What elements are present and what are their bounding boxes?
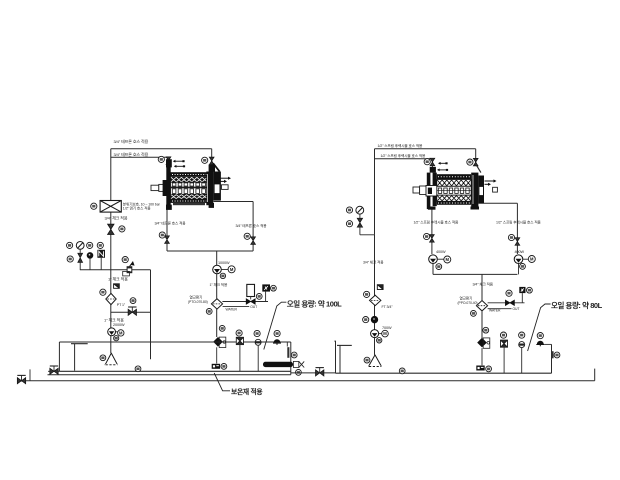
wire supply line1 left system: [111, 148, 212, 150]
wire main riser lower left system: [110, 270, 112, 353]
tank2 baffle: [337, 345, 352, 373]
svg-text:PT 1": PT 1": [117, 303, 126, 307]
wire center drop to tank2: [481, 311, 483, 338]
wire accumulator branch right: [488, 302, 525, 304]
motor M 400W-1: [444, 256, 451, 263]
temperature switch body: [97, 250, 105, 258]
air breather tank2: [536, 341, 544, 347]
wire water out left: [223, 306, 250, 308]
control tag bubble right: [527, 287, 533, 293]
svg-text:3/4" 체크 적용: 3/4" 체크 적용: [363, 259, 384, 264]
tank1 bottom tag bubble: [135, 366, 141, 372]
pump tag bubble 1000W: [220, 273, 225, 278]
svg-text:400W: 400W: [515, 250, 525, 254]
tank1 baffle: [71, 344, 88, 371]
machine M1 center section: [171, 182, 208, 194]
tag bubble purge unit: [91, 203, 97, 209]
strainer tag bubble right: [364, 357, 370, 363]
svg-text:700W: 700W: [382, 326, 392, 330]
valve V4 machine2 inlet right: [473, 158, 478, 166]
heater control box right: [519, 287, 525, 293]
gauge isolation valve right: [357, 218, 362, 227]
immersion heater tank1: [263, 361, 304, 367]
wire machine right drain horizontal: [214, 201, 254, 203]
wire main riser upper left system: [110, 149, 112, 201]
svg-text:(PTO-070-80): (PTO-070-80): [188, 300, 208, 304]
wire drop to machine2 top left: [431, 159, 433, 173]
wire control box stem right: [521, 293, 523, 303]
pump tag bubble 400W-1: [436, 264, 442, 270]
wire PS stem down: [89, 258, 91, 270]
gear pump right on tank: [478, 338, 490, 348]
drain valve machine right: [251, 237, 256, 245]
svg-text:오일 용량: 약 80L: 오일 용량: 약 80L: [551, 300, 603, 310]
machine M2 dryer roller right: [413, 167, 439, 209]
gauge isolation valve: [78, 253, 83, 262]
drain valve machine2 left: [430, 235, 435, 243]
valve main riser left: [108, 224, 115, 234]
solenoid valve tank1: [236, 337, 243, 344]
valve V2 machine inlet right: [209, 157, 214, 165]
svg-text:3/4" 테프론 호스 적용: 3/4" 테프론 호스 적용: [114, 151, 149, 157]
wire solenoid stem tank1: [239, 345, 241, 372]
drain valve machine2 right: [515, 238, 520, 246]
level gauge tank1: [287, 347, 289, 358]
heater tag bubble tank1: [296, 370, 302, 376]
wire discharge header right system: [433, 273, 517, 275]
wire bypass return line into tank: [150, 270, 152, 360]
heater control box left: [262, 284, 270, 291]
tag bubble PS: [87, 242, 93, 248]
wire level switch stem tank1: [257, 345, 259, 371]
gear pump tag bubble right: [483, 327, 489, 333]
svg-text:3/4" 체크 적용: 3/4" 체크 적용: [105, 215, 128, 221]
level gauge tank2: [552, 351, 554, 358]
wire accumulator stem: [250, 297, 252, 300]
machine M1 dryer roller left: [151, 159, 172, 205]
svg-text:보온재 적용: 보온재 적용: [231, 387, 263, 396]
check valve dark right riser: [371, 316, 378, 323]
wire tank1 to tank2 link: [291, 372, 336, 374]
leader oil capacity 80L: [528, 304, 551, 351]
machine M1 bottom band: [171, 199, 208, 205]
leader insulation label: [214, 373, 230, 391]
level gauge tag bubble tank2: [554, 352, 560, 358]
wire water out right: [488, 308, 512, 310]
wire cluster header right: [360, 234, 375, 236]
wire drop to machine top right: [211, 149, 213, 173]
accumulator valve left: [246, 299, 255, 304]
wire machine right drain drop: [252, 202, 254, 252]
tank1 drain valve: [50, 366, 58, 374]
valve tag bubble V3: [424, 159, 430, 165]
HX tag bubble left: [206, 309, 212, 315]
valve V1 machine inlet left: [166, 157, 171, 165]
wire gauge stem right: [359, 214, 361, 218]
vent arrow machine2 top2: [437, 169, 448, 172]
bypass valve tag bubble: [130, 298, 136, 304]
wire level switch stem tank2: [521, 348, 523, 374]
tank2 left corner: [334, 341, 335, 373]
level gauge tag bubble tank1: [291, 352, 297, 358]
drain valve tag bubble m2 right: [508, 234, 514, 240]
svg-text:WATER: WATER: [489, 309, 501, 313]
hatch band lower machine M2: [437, 196, 470, 201]
wire tank1 drain stub: [48, 370, 59, 372]
machine M1 body: [171, 172, 208, 177]
machine M1 shaft end right: [222, 185, 229, 190]
tag bubble valve cluster: [67, 256, 73, 262]
wire gauge stem: [79, 249, 81, 253]
svg-text:1/2" 스프링 후렉시블 호스 적용: 1/2" 스프링 후렉시블 호스 적용: [496, 219, 542, 224]
machine M2 right end: [428, 173, 484, 210]
motor M 400W-2: [528, 256, 535, 263]
filter tag bubble left: [100, 289, 106, 295]
svg-text:M: M: [383, 331, 387, 336]
wire gear pump to drain plug: [216, 347, 218, 363]
solenoid tag bubble tank1: [236, 330, 242, 336]
acc valve tag bubble right: [506, 290, 512, 296]
breather tag bubble tank2: [537, 333, 543, 339]
machine M2 bottom band: [437, 201, 471, 205]
gauge tag bubble PI: [67, 242, 73, 248]
wire accumulator branch left: [222, 301, 268, 303]
svg-text:1/2" 스프링 후렉시블 호스 적용: 1/2" 스프링 후렉시블 호스 적용: [381, 153, 427, 158]
level switch tag bubble tank1: [254, 330, 260, 336]
drain valve machine left: [165, 236, 170, 244]
accumulator tag bubble: [256, 294, 262, 300]
svg-text:M: M: [119, 330, 123, 335]
svg-text:3/4" 테프론 호스 적용: 3/4" 테프론 호스 적용: [236, 223, 268, 228]
wire bypass bottom branch: [111, 311, 151, 313]
wire control box stem left: [265, 292, 267, 302]
svg-text:M: M: [446, 257, 450, 262]
wire machine2 right drain horizontal: [478, 202, 517, 204]
drain valve tag bubble right: [244, 233, 250, 239]
hatch band lower machine M1: [171, 194, 208, 199]
drain plug right tank: [476, 366, 484, 371]
motor M 2000W: [118, 330, 124, 336]
wire machine left drain drop: [166, 206, 168, 252]
svg-text:1" 체크 적용: 1" 체크 적용: [104, 317, 124, 323]
HX tag bubble right: [471, 311, 477, 317]
drain valve tag bubble left: [159, 232, 165, 238]
flow arrow machine M1 right1: [220, 177, 232, 180]
wire tank1 left wall: [58, 342, 60, 371]
wire supply line2 right system: [375, 158, 433, 160]
wire main riser mid left system: [110, 212, 112, 270]
pump 2000W left: [108, 328, 116, 336]
drain plug tag bubble: [221, 364, 227, 370]
suction strainer left tank: [105, 353, 117, 365]
wire drain header left system: [167, 250, 253, 252]
wire tank2 bottom: [336, 372, 552, 374]
wire return drop upper: [216, 251, 218, 265]
svg-text:3/4" 테프론 호스 적용: 3/4" 테프론 호스 적용: [155, 221, 187, 226]
suction strainer right tank: [369, 355, 382, 367]
bypass globe valve: [128, 307, 136, 315]
tag bubble right riser: [363, 317, 369, 323]
drain plug left tank: [212, 364, 220, 369]
wire pump discharge left m2: [432, 264, 434, 275]
vent arrow machine left top1: [173, 160, 185, 163]
gear pump tag bubble left: [219, 326, 225, 332]
drain valve far left: [17, 375, 25, 383]
svg-text:1" 체크 적용: 1" 체크 적용: [210, 282, 228, 287]
wire drop to machine2 top right: [475, 149, 477, 164]
tag bubble PI right: [346, 207, 352, 213]
wire supply line2 left system: [111, 156, 169, 158]
relief valve tag bubble: [122, 257, 128, 263]
pump 400W left drain: [429, 255, 438, 264]
pump tag bubble 2000W: [114, 336, 119, 341]
svg-text:분위기보호, 10 ~ 100 bar: 분위기보호, 10 ~ 100 bar: [123, 201, 161, 206]
wire breather to tank2 wall: [544, 343, 551, 345]
tank2 bottom tag bubble: [399, 368, 405, 374]
vent arrow machine left top2: [174, 165, 185, 168]
solenoid tag bubble tank2: [500, 332, 506, 338]
svg-text:1/2" 스프링 후렉시블 호스 적용: 1/2" 스프링 후렉시블 호스 적용: [378, 143, 424, 148]
wire pump to motor 1000W: [221, 269, 228, 271]
drain valve tag bubble m2 left: [424, 233, 430, 239]
wire drain stub tick right: [594, 369, 596, 381]
filter tag bubble right: [364, 291, 370, 297]
svg-text:OUT: OUT: [513, 307, 520, 311]
machine M2 shaft end right: [493, 187, 498, 192]
wire center drop to HX right: [481, 274, 483, 300]
hatch band upper machine M1: [171, 177, 208, 183]
machine M2 body: [437, 174, 471, 186]
leader oil capacity 100L: [264, 302, 287, 349]
tag bubble valve right cluster: [346, 221, 352, 227]
wire tank1 right wall inner stub: [286, 342, 288, 347]
wire diagonal inlet machine2: [476, 164, 481, 173]
purge gas unit X-box: [100, 201, 121, 213]
valve tag bubble V1: [158, 156, 164, 162]
wire return drop to tank: [216, 309, 218, 337]
wire pump to motor 400W-1: [437, 258, 443, 260]
svg-text:3/4" 테프론 호스 적용: 3/4" 테프론 호스 적용: [114, 138, 149, 144]
valve tag bubble V4: [467, 159, 473, 165]
air breather tank1: [273, 339, 281, 345]
relief valve: [123, 262, 134, 276]
svg-text:1000W: 1000W: [218, 261, 230, 265]
oil filter left main: [106, 293, 116, 304]
link valve between tanks: [316, 368, 324, 376]
svg-text:1/2" 얽기 호스 적용: 1/2" 얽기 호스 적용: [123, 206, 152, 211]
svg-text:400W: 400W: [436, 250, 446, 254]
svg-text:M: M: [530, 257, 534, 262]
wire tank1 right wall: [290, 342, 292, 375]
svg-text:1" 체크 적용: 1" 체크 적용: [108, 276, 128, 282]
wire main riser upper right system: [374, 149, 376, 235]
pump tag bubble 700W: [377, 338, 382, 343]
valve tag bubble main riser: [119, 226, 125, 232]
branch box valve right riser: [377, 285, 383, 290]
pump 400W right drain: [514, 255, 523, 264]
pump 1000W return: [213, 265, 222, 274]
level switch tank2: [519, 342, 525, 348]
drain plug tag bubble right: [486, 366, 492, 372]
machine M1 right end: [166, 163, 221, 210]
wire tank1 bottom outer: [48, 374, 291, 376]
wire drop to machine top left: [168, 157, 170, 172]
pressure gauge left cluster: [76, 242, 84, 250]
wire supply line1 right system: [375, 148, 476, 150]
wire drain stub tick left: [29, 369, 31, 380]
pressure switch body: [87, 253, 93, 259]
machine M2 center section: [437, 186, 471, 195]
valve V3 machine2 inlet left: [430, 158, 435, 166]
wire return drop to HX: [216, 274, 218, 299]
vent arrow machine2 top1: [438, 162, 448, 165]
level switch tank1: [255, 339, 261, 345]
wire common drain line: [17, 380, 595, 382]
control tag bubble left: [271, 285, 277, 291]
oil filter right main: [370, 295, 381, 305]
machine M2 lower hatch: [437, 195, 471, 201]
svg-text:오일 용량: 약 100L: 오일 용량: 약 100L: [287, 298, 342, 308]
wire solenoid stem tank2: [503, 347, 505, 373]
pump tag bubble 400W-2: [520, 264, 526, 270]
svg-text:M: M: [230, 267, 234, 272]
svg-text:1/2" 스프링 후렉시블 호스 적용: 1/2" 스프링 후렉시블 호스 적용: [414, 220, 460, 225]
motor M 700W: [382, 330, 389, 337]
svg-text:2000W: 2000W: [113, 323, 125, 327]
wire machine2 right drain drop: [516, 203, 518, 254]
gear pump left on tank: [214, 337, 226, 347]
breather tag bubble tank1: [274, 330, 280, 336]
hatch band upper machine M2: [437, 180, 470, 186]
pump 700W right: [371, 330, 379, 338]
wire pump to motor 400W-2: [523, 258, 529, 260]
svg-text:(PPO-070-40): (PPO-070-40): [458, 301, 478, 305]
valve tag bubble V2: [202, 157, 208, 163]
svg-text:WATER: WATER: [226, 307, 238, 311]
wire valve stem right down: [359, 227, 361, 235]
wire pump discharge right m2: [518, 264, 520, 275]
wire pump to motor 2000W: [116, 331, 118, 333]
wire pump to motor 700W: [379, 333, 382, 335]
accumulator valve right: [505, 300, 514, 305]
wire gear pump to drain plug right: [481, 348, 483, 365]
tag bubble TS: [97, 242, 103, 248]
wire TS stem down: [100, 258, 102, 270]
wire valve stem down: [79, 262, 81, 269]
strainer tag bubble left: [100, 355, 106, 361]
svg-text:FT 3/4": FT 3/4": [382, 305, 394, 309]
accumulator vessel left: [247, 284, 255, 296]
wire main riser lower right system: [374, 235, 376, 355]
flow arrow machine M2 right1: [485, 179, 497, 182]
heat exchanger right: [476, 301, 487, 311]
flow arrow machine M2 right2: [485, 183, 492, 186]
svg-text:OUT: OUT: [250, 305, 257, 309]
solenoid valve tank2: [501, 340, 508, 347]
level switch tag bubble tank2: [519, 332, 525, 338]
wire tank1 bottom inner: [59, 370, 290, 372]
bypass branch box valve: [114, 284, 120, 289]
wire tank1 top: [59, 341, 290, 343]
heat exchanger left: [211, 299, 222, 309]
pressure gauge right cluster: [356, 206, 364, 214]
wire instrument header left: [80, 269, 151, 271]
motor M 1000W: [228, 266, 235, 273]
wire tank2 right wall: [551, 344, 553, 373]
wire machine2 left drain drop: [431, 208, 433, 254]
svg-text:3/4" 체크 적용: 3/4" 체크 적용: [473, 282, 494, 287]
flow arrow machine M1 right2: [220, 180, 228, 183]
